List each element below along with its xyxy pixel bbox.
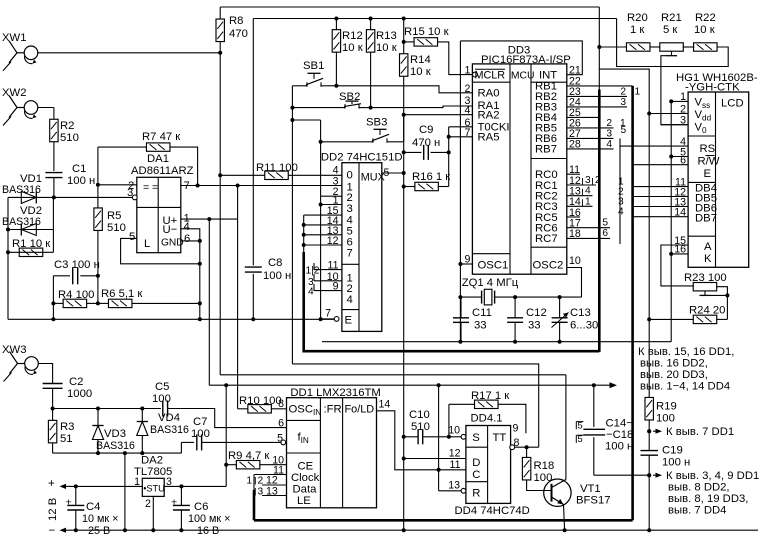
svg-text:−C18: −C18	[606, 429, 633, 441]
wire LCD DB stub 2	[618, 187, 688, 198]
label K	[704, 253, 712, 265]
capacitor C9	[412, 124, 440, 160]
svg-text:C5: C5	[155, 381, 169, 393]
wire VD2 line	[8, 229, 53, 231]
junction R6/gnd col	[198, 301, 202, 305]
group bus to DD1 pin11	[253, 475, 256, 521]
svg-text:C19: C19	[662, 445, 683, 457]
pin 5 label DA1	[129, 231, 135, 243]
wire DA2 pin2	[152, 496, 154, 530]
wire SB3 to RA2 line	[404, 115, 473, 142]
svg-text:4: 4	[347, 294, 353, 306]
resistor R22	[694, 12, 718, 51]
label RS	[700, 143, 716, 155]
group bus left/bottom	[304, 245, 600, 352]
wire SB jog	[292, 119, 320, 121]
svg-text:R22: R22	[695, 12, 716, 24]
minus 12V input	[49, 525, 759, 537]
svg-text:BAS316: BAS316	[150, 424, 189, 436]
svg-text:LE: LE	[297, 495, 311, 507]
svg-text:выв. 20 DD3,: выв. 20 DD3,	[640, 369, 708, 381]
pin 8 circle DD4	[510, 445, 515, 450]
wire OSC2 leg	[567, 268, 582, 298]
+5V line to arrow	[209, 382, 617, 388]
svg-text:MUX: MUX	[361, 172, 385, 184]
resistor R7	[142, 131, 180, 151]
label V0	[695, 122, 708, 136]
wire SB net to pin8	[292, 364, 538, 447]
wire SB common col	[291, 86, 293, 364]
junction mux col bottom	[402, 528, 406, 532]
wire RC3 stub	[567, 196, 593, 207]
junction OSC1 col	[458, 262, 462, 266]
pin 22 label DD3	[569, 76, 581, 88]
svg-text:C9: C9	[419, 124, 433, 136]
svg-text:C8: C8	[268, 257, 282, 269]
pin 23 label DD3	[569, 86, 581, 98]
wire XW3 to C2	[38, 364, 52, 384]
PLL DD1 LMX2316TM	[287, 387, 381, 508]
wire R4 line	[53, 302, 98, 304]
pin 5 circle DD1	[281, 440, 286, 445]
pin 2 label DA1	[128, 180, 134, 192]
svg-text:1: 1	[635, 86, 641, 97]
junction R20 left	[597, 45, 601, 49]
svg-text:VT1: VT1	[580, 483, 601, 495]
plus 12V input	[48, 478, 142, 490]
svg-text:C10: C10	[409, 409, 430, 421]
label DB5	[695, 193, 717, 205]
junction R1 left	[6, 250, 10, 254]
svg-text:1: 1	[464, 65, 470, 77]
junction R24 left Vdd	[647, 317, 651, 321]
wire RB6 stub	[567, 125, 627, 139]
wire R1 line	[8, 251, 53, 253]
pin 8 label DD4	[514, 437, 520, 449]
svg-text:33: 33	[528, 320, 541, 332]
svg-text:100 н: 100 н	[263, 270, 291, 282]
svg-text:C12: C12	[526, 307, 547, 319]
pin 3 label DA1	[127, 187, 133, 199]
svg-text:6: 6	[602, 228, 608, 239]
junction C19 note	[647, 473, 651, 477]
svg-text:выв. 8, 19 DD3,: выв. 8, 19 DD3,	[668, 493, 748, 505]
wire SB2 line	[292, 107, 370, 109]
svg-text:6: 6	[184, 233, 190, 245]
pin 17 label DD3	[569, 218, 581, 230]
junction C3/R5	[96, 274, 100, 278]
capacitor C4 polar	[66, 486, 119, 537]
pin 10 label DD3	[569, 255, 581, 267]
pin 14 label DD3	[569, 196, 581, 208]
svg-text:TT: TT	[493, 432, 507, 444]
wire DA2 out 5V	[164, 485, 226, 487]
svg-text:Clock: Clock	[291, 472, 320, 484]
svg-text:A: A	[704, 241, 712, 253]
wire DD2 pin15 stub	[304, 214, 342, 216]
label fin	[298, 432, 309, 446]
svg-text:2: 2	[145, 498, 151, 510]
svg-text:100 н: 100 н	[67, 175, 95, 187]
label OSC2	[533, 260, 564, 272]
wire +5 column from U+	[208, 219, 210, 385]
pin 7 label DD3	[464, 127, 470, 139]
resistor R24	[689, 305, 725, 324]
pin 9 label DD4	[513, 423, 519, 435]
wire rail2 to C8	[252, 19, 254, 266]
wire LCD pin1 stub	[669, 99, 688, 103]
svg-text:4: 4	[585, 186, 591, 197]
pin 26 label DD3	[569, 118, 581, 130]
junction R14 rail2	[402, 17, 406, 21]
wire R13 bottom	[370, 52, 372, 107]
junction pin5/gnd col	[198, 262, 202, 266]
svg-text:8: 8	[278, 398, 284, 410]
wire R5 column	[97, 147, 99, 303]
svg-text:R4 100: R4 100	[58, 289, 94, 301]
wire gnd tie col	[124, 453, 126, 530]
wire RB4 stub	[567, 116, 600, 118]
label FoLD	[345, 404, 375, 416]
label RB4	[535, 112, 557, 124]
diode VD3	[92, 409, 135, 454]
diode VD1	[2, 173, 42, 203]
pin 3 inversion circle	[132, 195, 137, 200]
resistor R12	[332, 30, 363, 54]
junction gnd rail SB col	[319, 317, 323, 321]
svg-text:LCD: LCD	[721, 98, 744, 110]
label LE	[297, 495, 311, 507]
pin 10 label DD2	[327, 271, 339, 283]
junction C10 left	[402, 435, 406, 439]
svg-text:К выв. 7 DD1: К выв. 7 DD1	[666, 426, 734, 438]
svg-text:выв. 1−4, 14 DD4: выв. 1−4, 14 DD4	[640, 381, 730, 393]
svg-text:2: 2	[606, 118, 612, 129]
svg-text:SB1: SB1	[303, 60, 324, 72]
junction C6 bottom	[179, 528, 183, 532]
junction MUX out	[402, 171, 406, 175]
svg-text:R11 100: R11 100	[256, 162, 298, 174]
svg-text:E: E	[704, 168, 712, 180]
pin 15 label DD2	[327, 205, 339, 217]
wire DA1 pin1 (U+)	[181, 218, 238, 220]
wire R14 bottom	[403, 76, 405, 114]
junction gnd tie	[123, 451, 127, 455]
svg-text:12: 12	[449, 448, 461, 460]
wire RB3 stub	[567, 97, 627, 108]
svg-text:R21: R21	[661, 12, 682, 24]
svg-text:10 к: 10 к	[694, 24, 715, 36]
svg-text:R18: R18	[534, 460, 555, 472]
pin 7 label DD2	[325, 308, 331, 320]
svg-text:R: R	[472, 488, 480, 500]
pin 10 circle DD4	[461, 434, 466, 439]
svg-text:выв. 8 DD2,: выв. 8 DD2,	[668, 482, 730, 494]
button SB2	[339, 91, 361, 108]
harness vertical	[619, 138, 621, 146]
svg-text:GND: GND	[161, 238, 184, 249]
junction VD3 top	[96, 407, 100, 411]
wire R17 left	[449, 403, 475, 405]
pin 4 label HG1	[680, 136, 686, 148]
junction +5/C14 col	[592, 383, 596, 387]
junction R5/pin2	[96, 183, 100, 187]
wire SB1 line	[292, 85, 336, 87]
svg-text:•STU: •STU	[143, 484, 165, 494]
capacitor C12	[507, 297, 547, 342]
label RC7	[535, 233, 558, 245]
label RB1	[535, 81, 557, 93]
label RB2	[535, 91, 557, 103]
junction R13 rail2	[369, 17, 373, 21]
pin 1 label HG1	[680, 91, 686, 103]
svg-text:7: 7	[325, 308, 331, 320]
label R	[472, 488, 480, 500]
svg-text:3: 3	[606, 128, 612, 139]
wire C10 line	[404, 436, 449, 438]
wire RC0 stub	[567, 173, 580, 175]
pin 5 label DD2	[384, 167, 390, 179]
wire R24 line	[649, 318, 727, 320]
svg-text:100: 100	[152, 393, 171, 405]
svg-text:DD1 LMX2316TM: DD1 LMX2316TM	[290, 387, 380, 399]
label A	[704, 241, 712, 253]
harness vertical 2	[619, 146, 621, 244]
wire DD2 pin14 stub	[302, 223, 342, 227]
wire DA1 pin6	[181, 240, 200, 242]
junction R9 left	[224, 463, 228, 467]
wire R11 line	[220, 174, 342, 176]
pin 1 label DD2	[333, 195, 339, 207]
svg-text:R24 20: R24 20	[689, 305, 725, 317]
pin 9 label DD3	[464, 254, 470, 266]
svg-text:16 В: 16 В	[197, 525, 219, 537]
svg-text:4: 4	[464, 105, 470, 117]
trimmer capacitor C13	[552, 297, 599, 342]
junction C4 top	[74, 484, 78, 488]
svg-text::FR: :FR	[324, 404, 342, 416]
capacitor C1	[45, 163, 95, 187]
label OSCin	[289, 404, 322, 418]
svg-text:4: 4	[618, 207, 624, 218]
net label note 1	[638, 346, 734, 393]
svg-text:R/W: R/W	[698, 156, 720, 168]
wire rail1 down col	[598, 7, 600, 352]
svg-text:ZQ1 4 МГц: ZQ1 4 МГц	[462, 277, 519, 289]
svg-text:0: 0	[347, 170, 353, 182]
capacitor C3	[54, 259, 100, 284]
resistor R14	[400, 54, 431, 78]
svg-text:6: 6	[278, 418, 284, 430]
pin 14 label DD2	[327, 215, 339, 227]
pin 1 label DA1	[184, 213, 190, 225]
svg-text:К выв. 15, 16 DD1,: К выв. 15, 16 DD1,	[638, 346, 734, 358]
net label note 2	[647, 426, 734, 438]
label RC1	[535, 180, 558, 192]
svg-text:К выв. 3, 4, 9 DD1,: К выв. 3, 4, 9 DD1,	[666, 470, 760, 482]
wire LCD pin6 stub	[633, 164, 689, 166]
label CE	[298, 461, 314, 473]
wire R3 bottom	[52, 443, 54, 453]
svg-text:5: 5	[602, 218, 608, 229]
svg-text:12 В: 12 В	[47, 498, 59, 521]
junction gnd rail DA1	[198, 317, 202, 321]
label RA2	[478, 110, 500, 122]
svg-text:DD4 74HC74D: DD4 74HC74D	[455, 505, 530, 517]
svg-text:DD2 74HC151D: DD2 74HC151D	[321, 151, 403, 163]
label FR	[324, 404, 342, 416]
svg-text:5: 5	[621, 125, 627, 136]
wire C8 bottom	[252, 274, 254, 320]
label MCLR	[475, 69, 506, 81]
button SB1	[303, 60, 324, 87]
svg-text:C4: C4	[86, 501, 100, 513]
pin 12 label DD3	[569, 175, 581, 187]
svg-text:XW3: XW3	[2, 344, 26, 356]
svg-text:14: 14	[379, 399, 391, 411]
svg-text:10 к: 10 к	[376, 42, 397, 54]
wire R2 to C1	[53, 142, 55, 171]
svg-text:OSC1: OSC1	[478, 260, 509, 272]
svg-text:10 к: 10 к	[342, 42, 363, 54]
wire C3 line	[53, 275, 98, 277]
pin 14 label HG1	[674, 207, 686, 219]
wire MUX out stub	[382, 172, 404, 174]
group bus up right	[598, 90, 601, 352]
svg-text:10: 10	[448, 425, 460, 437]
label DB7	[695, 213, 717, 225]
junction rail at x53	[51, 317, 55, 321]
svg-text:2: 2	[680, 103, 686, 115]
label RC6	[535, 223, 558, 235]
crystal ZQ1	[460, 289, 581, 305]
wire RC2 stub	[567, 186, 593, 197]
wire SB2 to RA1	[371, 106, 473, 108]
input bottom rail	[53, 452, 182, 454]
label DB4	[695, 183, 717, 195]
button SB3	[366, 117, 389, 143]
junction VD3 bottom	[96, 451, 100, 455]
capacitor C2	[43, 376, 93, 400]
svg-text:510: 510	[411, 421, 430, 433]
label RB7	[535, 144, 557, 156]
wire R7 left	[98, 146, 146, 148]
wire R12 bottom	[335, 52, 337, 86]
junction C13 gnd	[558, 340, 562, 344]
svg-text:D: D	[472, 457, 480, 469]
junction C2 node	[51, 407, 55, 411]
svg-text:CE: CE	[298, 461, 314, 473]
wire R18 to base	[527, 480, 552, 491]
pin 4 label DA1	[184, 221, 190, 233]
svg-text:100 н: 100 н	[662, 457, 690, 469]
svg-text:−: −	[49, 525, 56, 537]
resistor R4	[58, 289, 94, 308]
svg-text:1: 1	[585, 196, 591, 207]
wire R23 right	[716, 287, 727, 320]
svg-text:510: 510	[107, 222, 126, 234]
capacitor C5	[152, 381, 171, 417]
svg-text:100 н: 100 н	[605, 441, 633, 453]
junction +5/DD4 col	[437, 383, 441, 387]
svg-text:C14−: C14−	[606, 418, 634, 430]
label Data	[293, 484, 318, 496]
label DB6	[695, 203, 717, 215]
junction R23 wiper/right	[725, 293, 729, 297]
svg-text:K: K	[704, 253, 712, 265]
svg-text:5: 5	[384, 167, 390, 179]
svg-text:R15 10 к: R15 10 к	[404, 26, 449, 38]
resistor R8	[216, 15, 248, 42]
wire DD4 D stub	[404, 458, 466, 460]
label E	[704, 168, 712, 180]
label C	[472, 469, 480, 481]
junction VD4 bottom	[140, 451, 144, 455]
svg-text:1 к: 1 к	[630, 24, 644, 36]
svg-text:BAS316: BAS316	[2, 184, 41, 196]
wire R13 top	[370, 19, 372, 30]
svg-text:Data: Data	[293, 484, 318, 496]
wire VT1 emitter	[564, 505, 565, 531]
svg-text:9: 9	[513, 423, 519, 435]
svg-text:OSC2: OSC2	[533, 260, 564, 272]
wire R20-R21	[650, 46, 660, 48]
wire DD4 C-R tie col	[438, 385, 440, 491]
wire SB1 to RA0	[336, 86, 472, 93]
pin 7 inversion circle DD2	[334, 317, 339, 322]
svg-text:RA5: RA5	[478, 132, 500, 144]
svg-text:3: 3	[620, 97, 626, 108]
junction SB3 left	[319, 140, 323, 144]
wire VD2/R1 right tie	[52, 197, 54, 252]
svg-text:BAS316: BAS316	[96, 440, 135, 452]
wire DA1 output line	[181, 185, 342, 187]
wire R15 left	[404, 41, 414, 43]
svg-text:XW1: XW1	[2, 32, 26, 44]
svg-text:5: 5	[578, 421, 583, 431]
wire RB1 to bus	[567, 85, 633, 87]
svg-text:1|2: 1|2	[306, 266, 320, 277]
label RB6	[535, 133, 557, 145]
svg-text:11: 11	[450, 459, 461, 471]
junction R12 rail2	[334, 17, 338, 21]
label RC2	[535, 191, 558, 203]
label Vdd	[695, 109, 712, 123]
svg-text:7: 7	[347, 248, 353, 260]
resistor R6	[101, 288, 142, 308]
label RB3	[535, 102, 557, 114]
wire R17 right	[498, 404, 526, 433]
wire R15 to MCLR	[438, 42, 473, 75]
net label note 3	[647, 470, 760, 517]
wire RC1 stub	[567, 175, 601, 186]
wire C10 to S pin	[449, 436, 463, 438]
svg-text:Fo/LD: Fo/LD	[345, 404, 375, 416]
svg-text:10 мк ×: 10 мк ×	[82, 513, 118, 525]
voltage regulator DA2 TL7805	[134, 455, 172, 497]
wire LCD pin16 stub	[669, 252, 688, 256]
junction emitter rail	[563, 528, 567, 532]
pin 1 label DA2	[134, 476, 140, 488]
svg-text:XW2: XW2	[2, 87, 26, 99]
junction R16 left	[402, 185, 406, 189]
resistor R15	[404, 26, 449, 46]
svg-text:DA1: DA1	[147, 153, 169, 165]
svg-text:R6 5,1 к: R6 5,1 к	[101, 288, 142, 300]
pin 2 label DD3	[464, 83, 470, 95]
svg-text:C1: C1	[72, 163, 86, 175]
junction SB2 left	[290, 106, 294, 110]
